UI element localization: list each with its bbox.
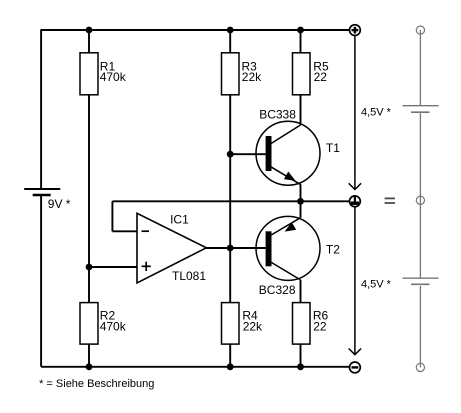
transistor T1 base bar	[266, 136, 272, 171]
equivalent battery B2 4.5V short plate	[411, 283, 430, 285]
svg-text:9V *: 9V *	[48, 197, 71, 211]
wire top supply rail	[41, 29, 350, 31]
transistor T2 emitter arrow (PNP)	[285, 222, 297, 231]
resistor R1 body	[80, 53, 98, 95]
transistor T2 collector stroke	[269, 261, 301, 280]
node junction bottom rail / R6	[297, 363, 304, 370]
svg-text:470k: 470k	[100, 320, 127, 334]
wire R3 bottom to R4 top (base column)	[229, 95, 231, 303]
equivalent battery B1 4.5V short plate	[411, 111, 430, 113]
wire R2 bottom lead	[88, 344, 90, 367]
transistor T1 emitter arrow (NPN)	[284, 172, 296, 181]
svg-text:4,5V *: 4,5V *	[361, 279, 392, 291]
equivalent column bottom terminal circle	[416, 363, 424, 371]
equivalent battery B2 4.5V long plate	[403, 277, 439, 279]
equivalent column middle terminal circle	[416, 196, 424, 204]
battery BAT1 9V short plate	[33, 194, 51, 196]
svg-text:T1: T1	[326, 141, 340, 155]
node junction bottom rail / R4	[227, 363, 234, 370]
wire T1 base	[230, 153, 265, 155]
equivalent battery B1 4.5V long plate	[403, 105, 439, 107]
svg-text:4,5V *: 4,5V *	[361, 106, 392, 118]
node junction op-amp output / T2 base	[227, 245, 234, 252]
svg-text:22: 22	[314, 70, 328, 84]
svg-text:22k: 22k	[243, 320, 263, 334]
transistor T1 emitter stroke	[269, 166, 301, 185]
svg-text:470k: 470k	[100, 70, 127, 84]
wire R4 bottom lead	[229, 344, 231, 367]
svg-text:* = Siehe Beschreibung: * = Siehe Beschreibung	[39, 378, 154, 390]
node junction bottom rail / R2	[86, 363, 93, 370]
svg-text:BC328: BC328	[259, 283, 296, 297]
op-amp IC1 plus input symbol	[142, 262, 151, 271]
wire op-amp noninverting input	[89, 266, 137, 268]
terminal minus (-) supply	[350, 362, 361, 373]
equivalent column top terminal circle	[416, 26, 424, 34]
equivalent battery column wire segments	[419, 30, 421, 367]
equals sign between columns	[385, 198, 395, 204]
wire R3 top lead	[229, 30, 231, 53]
terminal plus (+) supply	[350, 25, 361, 36]
wire R5 bottom to T1 collector	[300, 95, 302, 125]
transistor Q1 T1 BC338 circle	[256, 121, 320, 185]
op-amp U1 IC1 TL081 triangle	[137, 213, 206, 283]
transistor T2 base bar	[266, 231, 272, 266]
wire R5 top lead	[300, 30, 302, 53]
svg-text:BC338: BC338	[259, 107, 296, 121]
transistor Q2 T2 BC328 circle	[256, 216, 320, 280]
node junction top rail / R5	[297, 27, 304, 34]
transistor T1 collector stroke	[270, 125, 301, 145]
resistor R2 body	[80, 303, 98, 345]
wire output node to T2 emitter	[300, 201, 302, 217]
svg-text:TL081: TL081	[172, 269, 206, 283]
wire T1 emitter to output node	[300, 185, 302, 202]
transistor T2 emitter stroke	[271, 218, 300, 235]
wire R1 bottom to R2 top (noninverting input column)	[88, 95, 90, 303]
svg-text:IC1: IC1	[170, 213, 189, 227]
resistor R5 body	[293, 53, 311, 95]
wire R6 bottom lead	[300, 344, 302, 367]
op-amp IC1 minus input symbol	[142, 230, 150, 232]
svg-text:T2: T2	[326, 242, 340, 256]
wire op-amp inverting input	[112, 230, 136, 232]
resistor R6 body	[293, 303, 311, 345]
terminal ground (output node)	[350, 196, 361, 207]
node junction top rail / R1	[86, 27, 93, 34]
wire T2 base	[230, 247, 265, 249]
wire left branch upper (battery +)	[40, 29, 42, 189]
node junction noninverting input	[86, 264, 93, 271]
battery BAT1 9V long plate	[24, 188, 60, 190]
node junction T1 base	[227, 151, 234, 158]
svg-text:22k: 22k	[242, 70, 262, 84]
wire op-amp output	[206, 247, 231, 249]
wire left branch lower (battery -)	[40, 195, 42, 367]
wire T2 collector to R6 top	[300, 280, 302, 303]
node junction output rail	[297, 198, 304, 205]
arrow 4,5V lower half	[349, 207, 361, 355]
wire feedback horizontal (output rail to ground terminal)	[112, 200, 349, 202]
resistor R3 body	[222, 53, 240, 95]
arrow 4,5V upper half	[349, 37, 361, 190]
resistor R4 body	[222, 303, 240, 345]
node junction top rail / R3	[227, 27, 234, 34]
svg-text:22: 22	[313, 320, 327, 334]
wire R1 top lead	[88, 30, 90, 53]
wire bottom rail	[41, 366, 350, 368]
wire feedback vertical	[111, 201, 113, 231]
